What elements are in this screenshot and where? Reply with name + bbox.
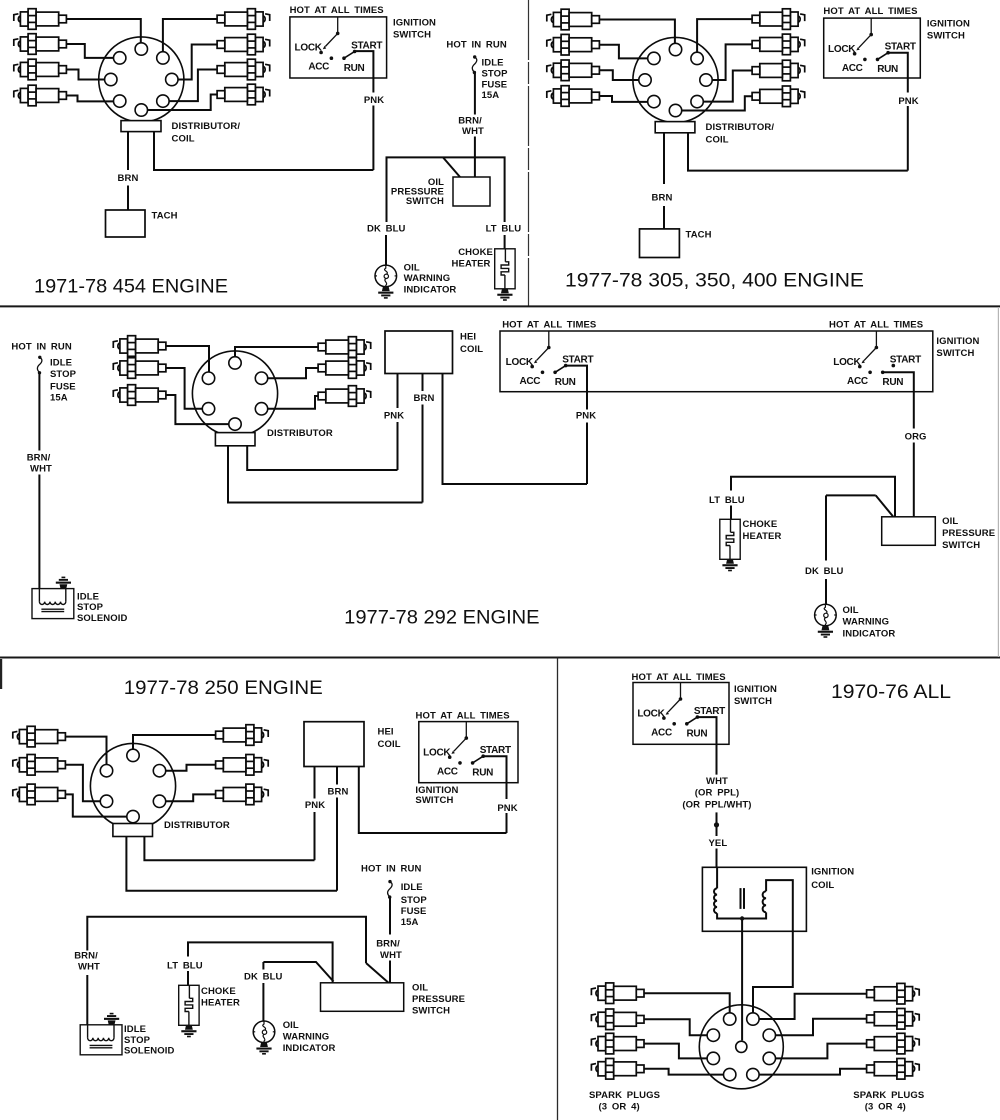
spark plug P6 right bbox=[318, 386, 371, 407]
spark plug P8 right bbox=[217, 84, 270, 105]
fuse IDLE STOP FUSE 15A bbox=[37, 356, 42, 375]
wire WHT to junction bbox=[716, 812, 718, 836]
spark plug P3 left bbox=[14, 59, 67, 80]
ignition switch internals bbox=[423, 722, 511, 779]
svg-text:FUSE: FUSE bbox=[482, 80, 508, 91]
wire plug1 to top terminal bbox=[67, 19, 141, 43]
svg-text:TACH: TACH bbox=[686, 230, 712, 241]
svg-text:DISTRIBUTOR: DISTRIBUTOR bbox=[164, 820, 230, 831]
distributor/coil bbox=[99, 37, 184, 122]
svg-text:FUSE: FUSE bbox=[50, 382, 76, 393]
wire plug3 to bottom terminal bbox=[166, 395, 229, 424]
svg-text:SWITCH: SWITCH bbox=[936, 348, 974, 359]
svg-text:COIL: COIL bbox=[378, 739, 401, 750]
wire distributor base to BRN bbox=[126, 837, 337, 891]
wire UR terminal to plug5 bbox=[166, 765, 216, 771]
spark plug P7 right bbox=[217, 59, 270, 80]
svg-text:WHT: WHT bbox=[462, 126, 484, 137]
svg-text:1977-78 305, 350, 400 ENGINE: 1977-78 305, 350, 400 ENGINE bbox=[565, 270, 864, 292]
svg-text:SPARK PLUGS: SPARK PLUGS bbox=[853, 1090, 924, 1101]
wire R-up terminal to plug6 bbox=[776, 1019, 867, 1035]
idle stop solenoid bbox=[80, 1025, 122, 1055]
ignition switch box bbox=[290, 17, 387, 78]
spark plug P7 right bbox=[867, 1033, 920, 1054]
choke heater bbox=[720, 519, 740, 559]
spark plug P4 right bbox=[216, 725, 269, 746]
svg-text:HEI: HEI bbox=[378, 727, 394, 738]
svg-text:BRN: BRN bbox=[328, 787, 349, 798]
svg-text:COIL: COIL bbox=[706, 135, 729, 146]
wire PNK from ignition switch upper bbox=[888, 53, 908, 93]
wire S terminal to plug8 bbox=[148, 95, 218, 111]
svg-text:OIL: OIL bbox=[843, 605, 859, 616]
spark plug P4 left bbox=[547, 86, 600, 107]
fuse IDLE STOP FUSE 15A bbox=[388, 880, 393, 899]
wire LT BLU net bbox=[188, 942, 333, 982]
wire DK BLU to lamp bbox=[385, 235, 387, 265]
switch lever RUN-START bbox=[687, 717, 698, 724]
ground on idle stop solenoid bbox=[56, 577, 71, 589]
wire DK BLU vertical upper bbox=[825, 495, 827, 560]
wire distributor base to PNK bbox=[144, 837, 314, 861]
coil core lines bbox=[740, 888, 742, 909]
wire plug3 to bottom terminal bbox=[66, 794, 127, 816]
wire DK BLU vertical upper bbox=[262, 962, 264, 970]
wire LT BLU lower bbox=[730, 506, 732, 520]
wire plug2 to LL terminal bbox=[66, 765, 101, 802]
wire LR terminal to plug6 bbox=[268, 396, 318, 409]
svg-text:IDLE: IDLE bbox=[401, 882, 423, 893]
coil secondary top lead bbox=[766, 880, 793, 931]
wire BR terminal to plug8 bbox=[759, 1069, 866, 1075]
wire SE terminal to plug7 bbox=[703, 71, 752, 102]
spark plug P4 left bbox=[14, 85, 67, 106]
wire DK BLU vertical lower bbox=[825, 579, 827, 604]
edge line right bbox=[997, 307, 999, 657]
wire SE terminal to plug7 bbox=[169, 70, 218, 102]
coil junction dot bbox=[740, 916, 744, 920]
svg-text:HEATER: HEATER bbox=[452, 259, 491, 270]
svg-text:STOP: STOP bbox=[482, 69, 509, 80]
svg-text:WARNING: WARNING bbox=[283, 1032, 330, 1043]
wire E terminal to plug6 bbox=[712, 44, 752, 80]
wire PNK lower bbox=[907, 106, 909, 171]
wire BRN lower bbox=[663, 206, 665, 229]
switch lever RUN-START bbox=[473, 756, 484, 763]
svg-text:LT BLU: LT BLU bbox=[167, 960, 203, 971]
svg-text:HOT IN RUN: HOT IN RUN bbox=[446, 40, 506, 51]
spark plug P6 right bbox=[867, 1009, 920, 1030]
spark plug P2 left bbox=[14, 34, 67, 55]
wire BRN from HEI coil bbox=[336, 767, 338, 785]
svg-text:IDLE: IDLE bbox=[50, 358, 72, 369]
svg-text:PNK: PNK bbox=[305, 800, 325, 811]
wire PNK switch vertical upper bbox=[566, 366, 587, 410]
wire DK BLU diagonal bbox=[876, 495, 893, 516]
svg-text:PNK: PNK bbox=[898, 96, 918, 107]
idle stop solenoid bbox=[32, 589, 74, 619]
wire ORG from RUN contact bbox=[883, 372, 914, 428]
ignition coil box bbox=[702, 867, 806, 931]
wire plug3 to W terminal bbox=[600, 70, 639, 80]
svg-text:INDICATOR: INDICATOR bbox=[404, 285, 457, 296]
wire plug1 to UL terminal bbox=[166, 346, 209, 372]
ignition switch internals left bbox=[506, 331, 594, 388]
svg-text:1970-76 ALL: 1970-76 ALL bbox=[831, 681, 951, 703]
wire DK BLU vertical lower bbox=[262, 983, 264, 1021]
svg-text:SWITCH: SWITCH bbox=[927, 31, 965, 42]
svg-text:IDLE: IDLE bbox=[482, 58, 504, 69]
wire coil secondary to TR terminal bbox=[753, 931, 793, 1013]
svg-text:IGNITION: IGNITION bbox=[936, 336, 979, 347]
spark plug P1 left bbox=[113, 336, 166, 357]
svg-text:1971-78 454 ENGINE: 1971-78 454 ENGINE bbox=[34, 276, 228, 298]
spark plug P2 left bbox=[547, 34, 600, 55]
svg-text:OIL: OIL bbox=[283, 1020, 299, 1031]
spark plug P3 left bbox=[13, 784, 66, 805]
svg-text:STOP: STOP bbox=[124, 1035, 151, 1046]
spark plug P1 left bbox=[13, 726, 66, 747]
distributor bbox=[699, 1005, 783, 1089]
wire DK BLU horizontal bbox=[263, 962, 333, 982]
wire E terminal to plug6 bbox=[178, 45, 217, 80]
svg-text:PRESSURE: PRESSURE bbox=[412, 994, 465, 1005]
wire diagonal into oil pressure switch bbox=[366, 963, 389, 983]
svg-text:WARNING: WARNING bbox=[843, 617, 890, 628]
spark plug P8 right bbox=[752, 86, 805, 107]
svg-text:HOT AT ALL TIMES: HOT AT ALL TIMES bbox=[502, 320, 596, 331]
wire PNK lower bbox=[314, 812, 316, 860]
wire top terminal to plug4 bbox=[235, 347, 318, 357]
svg-text:PNK: PNK bbox=[384, 411, 404, 422]
wire ORG lower bbox=[913, 443, 915, 517]
spark plug P2 left bbox=[113, 358, 166, 379]
wire plug1 to UL terminal bbox=[66, 737, 107, 765]
svg-text:IGNITION: IGNITION bbox=[811, 867, 854, 878]
wire branch to idle stop solenoid bbox=[87, 917, 366, 963]
svg-text:SOLENOID: SOLENOID bbox=[124, 1046, 174, 1057]
svg-text:WHT: WHT bbox=[78, 962, 100, 973]
svg-text:HOT AT ALL TIMES: HOT AT ALL TIMES bbox=[290, 5, 384, 16]
wire R-dn terminal to plug7 bbox=[776, 1044, 867, 1059]
svg-text:DK BLU: DK BLU bbox=[367, 224, 406, 235]
oil pressure switch bbox=[882, 517, 936, 546]
svg-text:15A: 15A bbox=[50, 393, 68, 404]
wire LR terminal to plug6 bbox=[166, 794, 216, 801]
wire BRN/WHT from fuse bbox=[474, 74, 476, 115]
ignition switch internals bbox=[828, 18, 916, 75]
wire PNK lower bbox=[397, 422, 399, 470]
svg-text:(3 OR 4): (3 OR 4) bbox=[599, 1102, 640, 1113]
wire PNK from ignition switch upper bbox=[354, 51, 373, 92]
wire node to lamp/choke bbox=[387, 157, 505, 222]
divider horizontal 1 bbox=[0, 305, 1000, 307]
svg-text:COIL: COIL bbox=[460, 344, 483, 355]
spark plug P6 right bbox=[217, 34, 270, 55]
wire PNK lower bbox=[372, 106, 374, 171]
svg-text:INDICATOR: INDICATOR bbox=[843, 628, 896, 639]
oil warning indicator lamp bbox=[253, 1021, 275, 1043]
choke heater bbox=[495, 249, 515, 289]
wire BRN distributor to tach upper bbox=[127, 132, 129, 170]
distributor base bbox=[655, 122, 695, 133]
svg-text:STOP: STOP bbox=[77, 602, 104, 613]
spark plug P3 left bbox=[113, 385, 166, 406]
svg-text:PNK: PNK bbox=[576, 411, 596, 422]
ground on idle stop solenoid bbox=[104, 1013, 119, 1025]
spark plug P3 left bbox=[547, 60, 600, 81]
svg-text:15A: 15A bbox=[482, 90, 500, 101]
coil secondary winding bbox=[763, 891, 767, 912]
wire PNK from HEI coil bbox=[314, 767, 316, 799]
wire plug2 to NW terminal bbox=[600, 45, 648, 59]
wire NE terminal to plug5 bbox=[697, 19, 752, 52]
svg-text:WARNING: WARNING bbox=[404, 273, 451, 284]
spark plug P2 left bbox=[13, 755, 66, 776]
spark plug P6 right bbox=[216, 784, 269, 805]
spark plug P1 left bbox=[547, 9, 600, 30]
divider horizontal 2 bbox=[0, 657, 1000, 659]
HEI coil bbox=[385, 331, 453, 374]
svg-text:HEI: HEI bbox=[460, 332, 476, 343]
wire BRN/WHT to oil pressure switch bbox=[389, 961, 391, 983]
svg-text:SPARK PLUGS: SPARK PLUGS bbox=[589, 1090, 660, 1101]
svg-text:PNK: PNK bbox=[364, 95, 384, 106]
svg-text:TACH: TACH bbox=[152, 211, 178, 222]
svg-text:SWITCH: SWITCH bbox=[412, 1006, 450, 1017]
spark plug P1 left bbox=[14, 9, 67, 30]
switch lever RUN-START left bbox=[555, 366, 566, 373]
svg-text:BRN/: BRN/ bbox=[376, 939, 400, 950]
spark plug P5 right bbox=[216, 755, 269, 776]
distributor base bbox=[215, 433, 255, 446]
wire top terminal to plug4 bbox=[133, 735, 216, 750]
svg-text:INDICATOR: INDICATOR bbox=[283, 1043, 336, 1054]
coil bottom link bbox=[717, 912, 766, 918]
svg-text:SWITCH: SWITCH bbox=[415, 795, 453, 806]
ground under lamp bbox=[818, 626, 833, 638]
wire DK BLU horizontal bbox=[826, 494, 876, 496]
svg-text:IDLE: IDLE bbox=[124, 1024, 146, 1035]
svg-text:15A: 15A bbox=[401, 917, 419, 928]
svg-text:BRN/: BRN/ bbox=[74, 951, 98, 962]
svg-text:BRN/: BRN/ bbox=[27, 453, 51, 464]
spark plug P4 right bbox=[318, 337, 371, 358]
wire plug1 to TL terminal bbox=[644, 993, 730, 1013]
svg-text:STOP: STOP bbox=[401, 895, 428, 906]
wire HEI coil to ignition switch PNK bbox=[443, 374, 588, 485]
wire plug1 to top terminal bbox=[600, 20, 675, 44]
svg-text:BRN: BRN bbox=[652, 193, 673, 204]
spark plug P5 right bbox=[752, 9, 805, 30]
svg-text:CHOKE: CHOKE bbox=[458, 247, 493, 258]
svg-text:IGNITION: IGNITION bbox=[927, 19, 970, 30]
wire PNK switch vertical upper bbox=[483, 756, 506, 799]
svg-text:PNK: PNK bbox=[497, 803, 517, 814]
ground under lamp bbox=[378, 287, 393, 299]
svg-text:CHOKE: CHOKE bbox=[743, 519, 778, 530]
svg-text:LT BLU: LT BLU bbox=[709, 495, 745, 506]
wire BRN/WHT solenoid lower bbox=[86, 975, 88, 1025]
distributor base bbox=[121, 121, 161, 132]
tachometer TACH bbox=[640, 229, 680, 258]
edge artifact bbox=[0, 659, 2, 689]
ground under choke heater bbox=[722, 559, 737, 571]
svg-text:WHT: WHT bbox=[706, 776, 728, 787]
ignition switch box bbox=[633, 683, 729, 745]
spark plug P5 right bbox=[318, 358, 371, 379]
wire distributor base to PNK net bbox=[688, 133, 908, 171]
svg-text:IDLE: IDLE bbox=[77, 591, 99, 602]
svg-text:SWITCH: SWITCH bbox=[406, 196, 444, 207]
spark plug P4 left bbox=[591, 1059, 644, 1080]
wire plug4 to SW terminal bbox=[600, 96, 648, 102]
wire distributor base to BRN bbox=[228, 446, 423, 503]
tachometer TACH bbox=[106, 210, 146, 237]
wire PNK switch vertical lower bbox=[586, 423, 588, 485]
svg-text:COIL: COIL bbox=[172, 134, 195, 145]
spark plug P3 left bbox=[591, 1033, 644, 1054]
wire BRN lower bbox=[127, 186, 129, 211]
svg-text:HOT AT ALL TIMES: HOT AT ALL TIMES bbox=[829, 320, 923, 331]
oil warning indicator lamp bbox=[815, 604, 837, 626]
wire BRN/WHT from fuse bbox=[389, 898, 391, 935]
svg-text:BRN: BRN bbox=[118, 173, 139, 184]
spark plug P1 left bbox=[591, 983, 644, 1004]
ground under lamp bbox=[256, 1043, 271, 1055]
junction node bbox=[714, 822, 719, 827]
ignition switch box (wide) bbox=[500, 331, 933, 392]
divider vertical top bbox=[528, 0, 530, 306]
svg-text:HOT AT ALL TIMES: HOT AT ALL TIMES bbox=[632, 672, 726, 683]
wire UR terminal to plug5 bbox=[268, 368, 318, 378]
wire BRN from HEI coil bbox=[422, 374, 424, 392]
ignition switch box bbox=[419, 722, 518, 783]
ignition switch internals right bbox=[833, 331, 921, 388]
spark plug P5 right bbox=[217, 9, 270, 30]
wire coil primary lead-in bbox=[716, 867, 718, 888]
svg-text:DISTRIBUTOR/: DISTRIBUTOR/ bbox=[706, 122, 775, 133]
wire plug4 to SW terminal bbox=[67, 96, 114, 102]
svg-text:DK BLU: DK BLU bbox=[805, 566, 844, 577]
svg-text:SWITCH: SWITCH bbox=[734, 696, 772, 707]
svg-text:YEL: YEL bbox=[709, 838, 728, 849]
wire diagonal into oil pressure switch bbox=[443, 157, 460, 177]
switch lever RUN-START bbox=[878, 53, 889, 60]
switch lever RUN-START bbox=[344, 52, 355, 59]
wire LT BLU lower bbox=[187, 971, 189, 985]
spark plug P8 right bbox=[867, 1059, 920, 1080]
svg-text:STOP: STOP bbox=[50, 369, 77, 380]
wire WHT from ignition switch bbox=[697, 717, 716, 775]
svg-text:WHT: WHT bbox=[380, 950, 402, 961]
svg-text:DISTRIBUTOR/: DISTRIBUTOR/ bbox=[172, 121, 241, 132]
coil primary winding bbox=[714, 888, 717, 913]
svg-text:(OR PPL/WHT): (OR PPL/WHT) bbox=[682, 800, 751, 811]
svg-text:BRN: BRN bbox=[414, 393, 435, 404]
svg-text:SWITCH: SWITCH bbox=[393, 29, 431, 40]
divider vertical bottom bbox=[557, 658, 559, 1120]
spark plug P5 right bbox=[867, 983, 920, 1004]
spark plug P2 left bbox=[591, 1009, 644, 1030]
distributor bbox=[192, 351, 277, 436]
wire BRN lower bbox=[336, 798, 338, 891]
svg-text:OIL: OIL bbox=[412, 983, 428, 994]
wire HEI coil to ignition switch PNK bbox=[359, 767, 507, 834]
wire plug3 to W terminal bbox=[67, 70, 105, 80]
svg-text:HOT AT ALL TIMES: HOT AT ALL TIMES bbox=[823, 6, 917, 17]
svg-text:HOT AT ALL TIMES: HOT AT ALL TIMES bbox=[416, 710, 510, 721]
wire plug2 to LL terminal bbox=[166, 368, 202, 409]
svg-text:HOT IN RUN: HOT IN RUN bbox=[361, 864, 421, 875]
svg-text:COIL: COIL bbox=[811, 880, 834, 891]
svg-text:LT BLU: LT BLU bbox=[486, 224, 522, 235]
oil pressure switch bbox=[321, 983, 404, 1012]
svg-text:IGNITION: IGNITION bbox=[734, 684, 777, 695]
svg-text:DK BLU: DK BLU bbox=[244, 971, 283, 982]
svg-text:BRN/: BRN/ bbox=[458, 116, 482, 127]
wire plug2 to L-up terminal bbox=[644, 1019, 707, 1035]
svg-text:ORG: ORG bbox=[905, 432, 927, 443]
svg-text:HOT IN RUN: HOT IN RUN bbox=[11, 342, 71, 353]
wire distributor base to PNK net bbox=[154, 132, 373, 170]
distributor/coil bbox=[633, 37, 718, 122]
fuse IDLE STOP FUSE 15A bbox=[472, 55, 477, 74]
wire plug4 to BL terminal bbox=[644, 1069, 724, 1075]
wire PNK from HEI coil bbox=[397, 374, 399, 409]
wire BRN/WHT from fuse bbox=[38, 374, 40, 451]
oil pressure switch bbox=[453, 177, 490, 206]
wire YEL to ignition coil bbox=[716, 849, 718, 868]
wire TR terminal to plug5 bbox=[759, 994, 866, 1019]
wire S terminal to plug8 bbox=[682, 96, 752, 110]
svg-text:FUSE: FUSE bbox=[401, 906, 427, 917]
svg-text:HEATER: HEATER bbox=[201, 998, 240, 1009]
wire LT BLU from oil pressure switch bbox=[731, 477, 895, 517]
wire plug3 to L-dn terminal bbox=[644, 1044, 707, 1059]
ignition switch internals bbox=[295, 17, 383, 74]
HEI coil bbox=[304, 722, 364, 767]
wire BRN lower bbox=[422, 405, 424, 503]
svg-text:SOLENOID: SOLENOID bbox=[77, 613, 127, 624]
spark plug P6 right bbox=[752, 34, 805, 55]
oil warning indicator lamp bbox=[375, 265, 397, 287]
ignition switch internals bbox=[637, 683, 725, 740]
svg-text:PRESSURE: PRESSURE bbox=[942, 528, 995, 539]
ignition switch box bbox=[824, 18, 921, 78]
wire coil to distributor center bbox=[741, 919, 743, 1041]
svg-text:(3 OR 4): (3 OR 4) bbox=[865, 1102, 906, 1113]
wire LT BLU to choke heater bbox=[504, 235, 506, 249]
svg-text:OIL: OIL bbox=[404, 263, 420, 274]
svg-text:HEATER: HEATER bbox=[743, 531, 782, 542]
wire BRN distributor to tach upper bbox=[663, 133, 665, 184]
svg-text:DISTRIBUTOR: DISTRIBUTOR bbox=[267, 428, 333, 439]
distributor bbox=[90, 743, 175, 828]
wire NE terminal to plug5 bbox=[163, 19, 217, 52]
spark plug P7 right bbox=[752, 60, 805, 81]
wire PNK switch vertical lower bbox=[506, 813, 508, 833]
choke heater bbox=[179, 985, 199, 1025]
wire BRN/WHT to oil pressure switch bbox=[474, 137, 476, 178]
svg-text:CHOKE: CHOKE bbox=[201, 986, 236, 997]
ground under choke heater bbox=[497, 289, 512, 301]
svg-text:SWITCH: SWITCH bbox=[942, 540, 980, 551]
wire BRN/WHT to idle stop solenoid bbox=[38, 475, 40, 589]
wire distributor base to PNK bbox=[247, 446, 397, 470]
svg-text:1977-78 250 ENGINE: 1977-78 250 ENGINE bbox=[124, 677, 323, 699]
svg-text:(OR PPL): (OR PPL) bbox=[695, 788, 740, 799]
